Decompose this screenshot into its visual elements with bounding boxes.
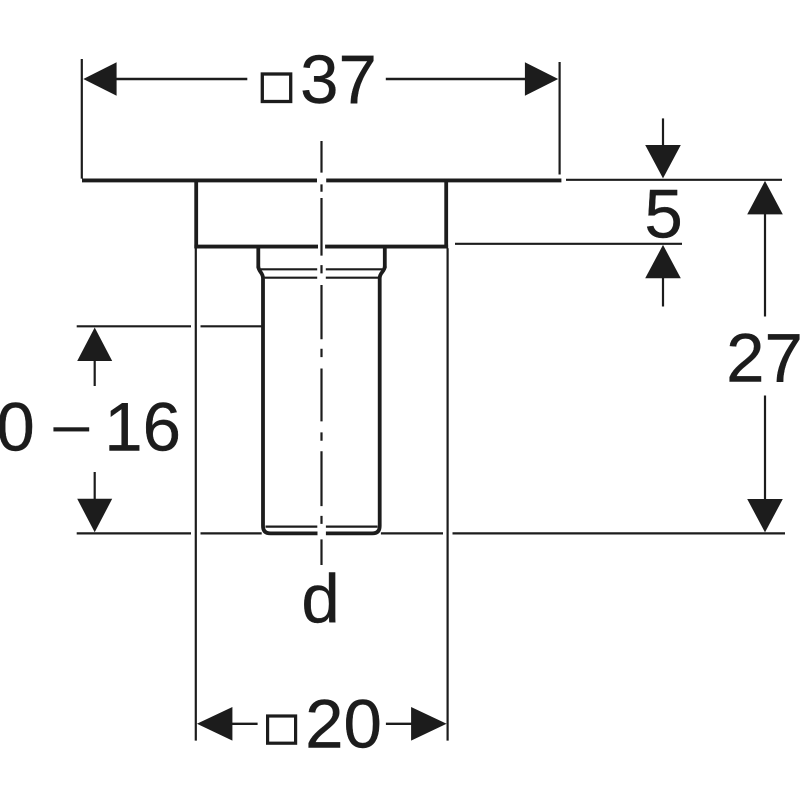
ext line right of plate (5/27 top) [566,179,782,181]
collar left wall [256,247,260,269]
dim 37 extension right [558,62,560,175]
dim 20 arrow right [411,707,447,741]
svg-text:27: 27 [726,320,800,397]
dim 37 extension left [81,59,83,179]
bottom level line right (27 bottom) [381,532,443,534]
svg-text:0: 0 [0,389,35,466]
svg-text:d: d [301,561,339,638]
dim 0-16 down arrow [77,499,112,533]
dim 27 line [764,214,766,317]
dim 37 arrow left [83,62,116,96]
plate top line [82,178,317,182]
pipe left wall + bottom left [263,277,318,534]
dim 20 line [232,723,258,725]
svg-text:16: 16 [104,389,181,466]
dim 37 arrow right [525,62,558,96]
pipe chamfer line [266,525,318,527]
dim 0-16 up arrow [77,328,112,362]
ext line flange bottom right (5 bottom) [455,243,682,245]
dim 27 down arrow [747,499,783,532]
dim 27 up arrow [747,181,783,215]
flange left wall [194,179,198,249]
dim 20 ext right [447,248,449,740]
collar taper left [258,267,263,278]
flange right wall [444,179,448,249]
dim 0-16 top ext line [77,325,191,327]
collar right wall [383,247,387,269]
dim 37 line [116,78,247,80]
shoulder line upper [260,268,318,270]
shoulder line lower [265,277,318,279]
dim 5 down arrow [645,145,681,178]
svg-text:37: 37 [300,41,377,118]
dim 5 up arrow [645,245,681,278]
dim 20 arrow left [197,707,233,741]
svg-text:20: 20 [305,686,382,763]
flange bottom [194,245,318,249]
dim 0-16 bottom ext line / pipe bottom level left [77,532,191,534]
svg-text:5: 5 [644,175,682,252]
dash of 0-16 [54,428,89,432]
square symbol top [262,74,290,102]
centerline [320,141,322,565]
dim 20 ext left [195,248,197,740]
square symbol bottom [268,716,296,743]
pipe right wall + bottom right [326,277,380,534]
collar taper right [380,267,385,278]
